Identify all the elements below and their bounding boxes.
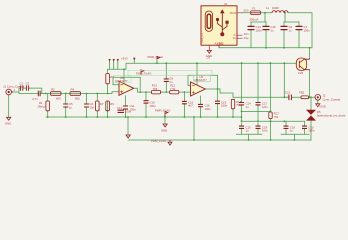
svg-text:1u: 1u (169, 80, 173, 84)
svg-text:2Meg: 2Meg (38, 105, 45, 109)
svg-text:100n: 100n (221, 104, 228, 108)
svg-text:22p: 22p (244, 36, 249, 40)
svg-text:bidirectional_tvs_diode: bidirectional_tvs_diode (317, 114, 346, 118)
svg-text:6.8n: 6.8n (262, 105, 268, 109)
svg-text:C2: C2 (26, 82, 30, 86)
svg-text:4,7n: 4,7n (32, 97, 38, 101)
svg-text:R9: R9 (110, 102, 114, 106)
svg-text:1u: 1u (290, 129, 294, 133)
svg-text:1V8: 1V8 (298, 71, 303, 75)
svg-text:100n: 100n (304, 29, 311, 33)
svg-text:R6: R6 (110, 75, 114, 79)
svg-text:+3V3: +3V3 (121, 57, 128, 61)
svg-text:PWR_FLAG: PWR_FLAG (136, 72, 151, 76)
svg-text:10n: 10n (90, 106, 95, 110)
svg-text:7,5k: 7,5k (170, 87, 176, 91)
svg-text:PWR_FLAG: PWR_FLAG (148, 55, 163, 59)
svg-text:MAX4477: MAX4477 (115, 79, 128, 83)
svg-text:180n: 180n (308, 129, 315, 133)
svg-text:GND: GND (161, 128, 167, 132)
svg-text:C21: C21 (285, 91, 291, 95)
svg-text:1u: 1u (271, 29, 275, 33)
svg-text:5V0: 5V0 (244, 9, 249, 13)
svg-text:D+: D+ (233, 37, 237, 40)
svg-text:1u: 1u (246, 105, 250, 109)
svg-text:C12: C12 (117, 106, 123, 110)
svg-text:4n7: 4n7 (188, 104, 193, 108)
svg-text:100R: 100R (272, 6, 279, 10)
svg-text:100n: 100n (125, 110, 132, 114)
svg-text:R4: R4 (71, 88, 75, 92)
svg-text:C1: C1 (20, 82, 24, 86)
svg-text:FB2: FB2 (299, 91, 305, 95)
svg-text:GND: GND (217, 42, 223, 45)
svg-text:6.8n: 6.8n (262, 129, 268, 133)
svg-text:100n: 100n (256, 29, 263, 33)
svg-text:F1: F1 (252, 7, 256, 11)
svg-text:L1: L1 (266, 6, 270, 10)
svg-text:Conn_Coaxial: Conn_Coaxial (323, 98, 341, 102)
svg-text:1u: 1u (289, 29, 293, 33)
svg-text:USB_2.0: USB_2.0 (201, 33, 204, 43)
svg-text:GND: GND (5, 122, 11, 126)
svg-text:665: 665 (56, 97, 61, 101)
svg-text:100n: 100n (205, 107, 212, 111)
svg-text:765: 765 (153, 87, 158, 91)
svg-text:VBUS: VBUS (229, 12, 236, 15)
svg-text:J3: J3 (224, 2, 227, 6)
svg-text:MAX4477: MAX4477 (195, 78, 208, 82)
svg-text:665: 665 (75, 97, 80, 101)
svg-text:75k: 75k (274, 115, 279, 119)
svg-text:1u: 1u (246, 129, 250, 133)
svg-text:PWR_FLAG: PWR_FLAG (151, 139, 166, 143)
svg-text:R2: R2 (51, 88, 55, 92)
svg-text:R7: R7 (100, 102, 104, 106)
svg-text:PWR_FLAG: PWR_FLAG (155, 108, 170, 112)
svg-text:GND: GND (206, 54, 212, 58)
svg-text:GND: GND (320, 105, 326, 109)
svg-text:75k: 75k (236, 103, 241, 107)
svg-text:1n: 1n (69, 106, 73, 110)
svg-text:500mA: 500mA (250, 17, 259, 21)
